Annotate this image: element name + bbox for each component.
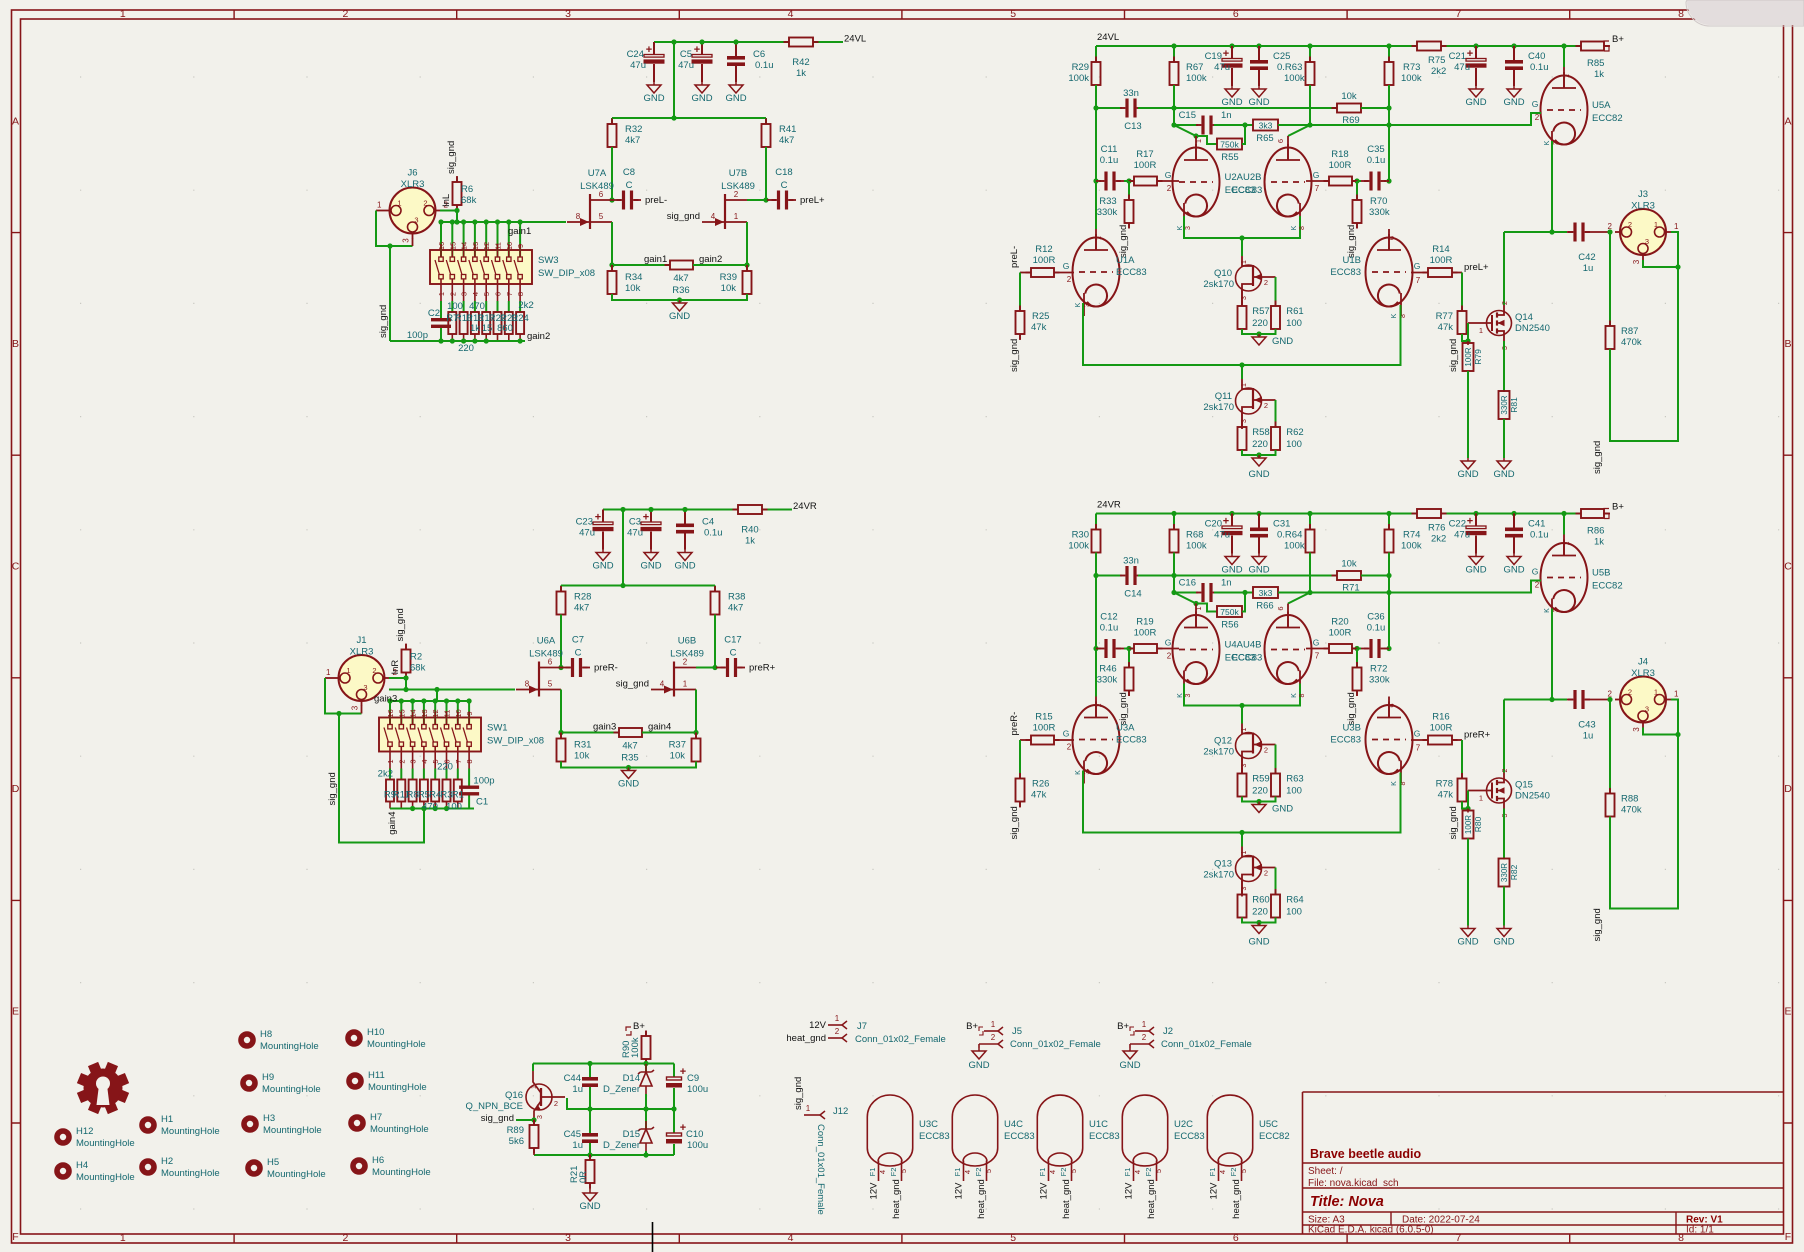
svg-text:12V: 12V — [869, 1182, 880, 1200]
svg-text:C6: C6 — [753, 49, 765, 60]
svg-text:+: + — [1467, 516, 1473, 528]
wire Q14 drain to output node — [1504, 231, 1552, 233]
svg-text:R58: R58 — [1252, 427, 1269, 438]
svg-text:K: K — [1291, 693, 1298, 698]
svg-text:G: G — [1532, 567, 1539, 577]
resistor R15 100R — [1026, 739, 1032, 741]
svg-text:2: 2 — [1067, 275, 1072, 284]
svg-text:4: 4 — [788, 1232, 794, 1244]
svg-text:2: 2 — [1502, 768, 1509, 772]
svg-text:7: 7 — [1416, 276, 1421, 285]
svg-text:C23: C23 — [576, 517, 593, 528]
svg-text:4: 4 — [1048, 1170, 1057, 1174]
svg-text:2: 2 — [342, 8, 348, 20]
svg-text:U3A: U3A — [1116, 723, 1135, 734]
svg-text:B+: B+ — [1612, 502, 1624, 513]
svg-text:68k: 68k — [410, 663, 426, 674]
svg-text:2: 2 — [1502, 301, 1509, 305]
svg-text:12: 12 — [431, 709, 440, 717]
capacitor C17 — [696, 667, 716, 669]
svg-text:24VR: 24VR — [1097, 500, 1121, 511]
svg-text:heat_gnd: heat_gnd — [891, 1179, 902, 1219]
svg-text:R42: R42 — [792, 57, 809, 68]
capacitor C42 1u — [1567, 231, 1573, 233]
svg-text:330k: 330k — [1369, 675, 1390, 686]
svg-text:8: 8 — [1299, 226, 1306, 230]
mounting hole H2 — [142, 1161, 154, 1173]
svg-text:R36: R36 — [672, 285, 689, 296]
svg-text:C: C — [781, 180, 788, 191]
svg-text:11: 11 — [443, 710, 452, 718]
ground under C4 — [684, 550, 686, 553]
svg-text:Brave beetle audio: Brave beetle audio — [1310, 1147, 1422, 1161]
wire to U4AU4B grid — [1157, 648, 1179, 650]
wire XLR pin1 to ground bus — [325, 677, 334, 679]
svg-text:220: 220 — [1252, 439, 1268, 450]
svg-text:GND: GND — [691, 93, 712, 104]
svg-text:8: 8 — [525, 680, 530, 689]
svg-text:47u: 47u — [678, 60, 694, 71]
svg-text:C5: C5 — [680, 49, 692, 60]
svg-text:H5: H5 — [267, 1157, 279, 1168]
svg-text:R30: R30 — [1072, 530, 1089, 541]
svg-text:preL-: preL- — [1009, 246, 1020, 268]
svg-text:100k: 100k — [1401, 541, 1422, 552]
svg-text:DN2540: DN2540 — [1515, 791, 1550, 802]
svg-text:U7A: U7A — [588, 168, 607, 179]
svg-text:860: 860 — [497, 323, 513, 334]
svg-text:3: 3 — [402, 238, 411, 243]
svg-text:5: 5 — [482, 292, 491, 296]
svg-text:3: 3 — [565, 8, 571, 20]
svg-text:gain2: gain2 — [699, 254, 722, 265]
svg-text:100k: 100k — [1284, 541, 1305, 552]
svg-text:1: 1 — [377, 201, 382, 210]
svg-text:2: 2 — [1608, 690, 1613, 699]
svg-text:GND: GND — [1457, 469, 1478, 480]
svg-text:3: 3 — [1645, 705, 1649, 714]
resistor R64 100 — [1275, 868, 1277, 895]
wire sig_gnd down — [389, 246, 391, 341]
svg-text:R74: R74 — [1403, 530, 1420, 541]
svg-text:preR+: preR+ — [1464, 730, 1491, 741]
junction sig_gnd — [336, 711, 341, 716]
svg-text:K: K — [1391, 313, 1398, 318]
svg-text:4: 4 — [788, 8, 794, 20]
svg-text:100k: 100k — [1186, 541, 1207, 552]
wire anode feedback line — [1095, 553, 1097, 697]
svg-text:GND: GND — [1493, 937, 1514, 948]
wire zener rail 3 — [534, 1154, 674, 1156]
resistor bank SW3 position 6 — [508, 301, 510, 312]
svg-text:3: 3 — [1632, 259, 1641, 264]
svg-text:100: 100 — [447, 301, 463, 312]
wire resistor bank bus — [390, 808, 474, 810]
svg-text:gain3: gain3 — [374, 694, 397, 705]
wire to U2B grid — [1306, 180, 1329, 182]
svg-text:H4: H4 — [76, 1160, 88, 1171]
svg-text:10k: 10k — [670, 751, 686, 762]
svg-text:47k: 47k — [1438, 790, 1454, 801]
svg-text:SW1: SW1 — [487, 723, 508, 734]
svg-text:47u: 47u — [1454, 62, 1470, 73]
svg-text:MountingHole: MountingHole — [367, 1039, 426, 1050]
transistor Q10 2sk170 — [1241, 238, 1243, 256]
svg-text:ECC83: ECC83 — [1330, 735, 1361, 746]
svg-text:100R: 100R — [1430, 255, 1453, 266]
switch SW3 body — [430, 250, 532, 284]
svg-text:U5C: U5C — [1259, 1119, 1278, 1130]
svg-text:GND: GND — [1493, 469, 1514, 480]
svg-text:1k: 1k — [1594, 537, 1604, 548]
svg-text:ECC83: ECC83 — [1174, 1131, 1205, 1142]
svg-text:Title: Nova: Title: Nova — [1310, 1194, 1384, 1210]
resistor R63 overlapped labels — [1309, 46, 1311, 62]
svg-text:12V: 12V — [1039, 1182, 1050, 1200]
switch SW3 unit 8 — [519, 222, 521, 257]
transistor Q12 2sk170 — [1241, 706, 1243, 724]
svg-text:File: nova.kicad_sch: File: nova.kicad_sch — [1308, 1178, 1399, 1189]
svg-text:MountingHole: MountingHole — [267, 1169, 326, 1180]
svg-text:U1A: U1A — [1116, 255, 1135, 266]
switch SW3 unit 7 — [508, 222, 510, 257]
resistor R66 3k3 boxed — [1253, 587, 1278, 598]
svg-text:1: 1 — [437, 292, 446, 296]
svg-text:MountingHole: MountingHole — [372, 1167, 431, 1178]
wire grid feed U5B — [1389, 581, 1541, 593]
svg-text:0.R63: 0.R63 — [1277, 62, 1302, 73]
resistor R62 100 — [1275, 400, 1277, 427]
svg-text:8: 8 — [1678, 8, 1684, 20]
svg-text:R18: R18 — [1331, 149, 1348, 160]
resistor bank SW3 position 1 — [451, 301, 453, 312]
mounting hole H1 — [142, 1119, 154, 1131]
svg-text:100: 100 — [1286, 318, 1302, 329]
svg-text:XLR3: XLR3 — [401, 179, 425, 190]
svg-text:7: 7 — [1455, 1232, 1461, 1244]
svg-text:sig_gnd: sig_gnd — [1346, 225, 1357, 258]
svg-text:1: 1 — [1674, 222, 1679, 231]
svg-text:Q_NPN_BCE: Q_NPN_BCE — [465, 1101, 523, 1112]
resistor bank SW1 position 1 — [389, 769, 391, 780]
ground under C22 — [1475, 554, 1477, 557]
svg-text:C9: C9 — [687, 1073, 699, 1084]
resistor R68 — [1173, 514, 1175, 530]
svg-text:2sk170: 2sk170 — [1203, 279, 1234, 290]
diode D14 zener — [645, 1064, 647, 1072]
svg-text:3: 3 — [1084, 303, 1091, 307]
svg-text:U2AU2B: U2AU2B — [1225, 172, 1262, 183]
ground under C31 — [1258, 554, 1260, 557]
svg-text:3: 3 — [409, 759, 418, 763]
wire zener rail 1 — [533, 1063, 674, 1065]
svg-text:1: 1 — [1241, 727, 1248, 731]
mounting hole H6 — [353, 1160, 365, 1172]
svg-text:J2: J2 — [1163, 1026, 1173, 1037]
svg-text:ECC82: ECC82 — [1592, 113, 1623, 124]
resistor R35 4k7 — [614, 732, 620, 734]
svg-text:heat_gnd: heat_gnd — [976, 1179, 987, 1219]
svg-text:47u: 47u — [1214, 530, 1230, 541]
svg-text:1: 1 — [1674, 690, 1679, 699]
wire cathode to output — [1552, 609, 1567, 700]
svg-text:SW_DIP_x08: SW_DIP_x08 — [538, 268, 595, 279]
svg-text:U2C: U2C — [1174, 1119, 1193, 1130]
svg-text:U5A: U5A — [1592, 100, 1611, 111]
svg-text:G: G — [1063, 261, 1070, 271]
svg-text:330k: 330k — [1097, 207, 1118, 218]
svg-text:K: K — [1291, 225, 1298, 230]
svg-text:2: 2 — [1142, 1033, 1147, 1042]
svg-text:F2: F2 — [974, 1168, 983, 1177]
svg-text:5: 5 — [548, 680, 553, 689]
svg-text:MountingHole: MountingHole — [262, 1084, 321, 1095]
svg-text:Q16: Q16 — [505, 1090, 523, 1101]
svg-text:47u: 47u — [630, 60, 646, 71]
svg-text:gain2: gain2 — [527, 331, 550, 342]
wire R80 to ground — [1467, 839, 1469, 926]
cursor crosshair line — [652, 1222, 654, 1252]
capacitor C9 100u — [673, 1064, 675, 1078]
resistor bank SW1 position 7 — [457, 769, 459, 780]
resistor R76 2k2 — [1412, 513, 1418, 515]
svg-text:U5B: U5B — [1592, 568, 1610, 579]
svg-text:1: 1 — [120, 8, 126, 20]
svg-text:R25: R25 — [1032, 311, 1049, 322]
svg-text:B: B — [1784, 338, 1791, 350]
resistor R59 220 — [1241, 758, 1243, 774]
wire cathode bus 2 — [1083, 771, 1401, 833]
svg-text:47u: 47u — [579, 528, 595, 539]
svg-text:ECC83: ECC83 — [1089, 1131, 1120, 1142]
svg-text:GND: GND — [1221, 565, 1242, 576]
svg-text:100R: 100R — [1134, 160, 1157, 171]
svg-text:100R: 100R — [1464, 347, 1473, 366]
capacitor C4 — [684, 510, 686, 524]
wire gain2 to U7B source — [693, 222, 747, 265]
svg-text:F2: F2 — [1144, 1168, 1153, 1177]
wire XLR pin2 to switch bus — [440, 211, 457, 223]
svg-text:C36: C36 — [1367, 612, 1384, 623]
svg-text:0.1u: 0.1u — [704, 528, 723, 539]
svg-text:R77: R77 — [1436, 311, 1453, 322]
svg-text:2: 2 — [448, 292, 457, 296]
mounting hole H9 — [243, 1077, 255, 1089]
ground under C23 — [602, 550, 604, 553]
svg-text:D14: D14 — [623, 1073, 640, 1084]
wire CCS bottom — [1242, 797, 1276, 802]
svg-text:R57: R57 — [1252, 306, 1269, 317]
junction grid node right — [1354, 178, 1359, 183]
svg-text:C: C — [730, 648, 737, 659]
wire R63 drop — [1309, 85, 1311, 125]
svg-text:100k: 100k — [1284, 73, 1305, 84]
wire diagonals to U4AU4B anodes — [1174, 593, 1196, 604]
svg-text:R67: R67 — [1186, 62, 1203, 73]
svg-text:ECC82: ECC82 — [1259, 1131, 1290, 1142]
svg-text:100R: 100R — [1430, 723, 1453, 734]
junction grid node — [1126, 646, 1131, 651]
svg-text:LSK489: LSK489 — [529, 649, 563, 660]
net label sig_gnd below R33 — [1128, 223, 1130, 228]
connector J3 XLR3 — [1620, 209, 1666, 255]
wire to U2AU2B grid — [1157, 180, 1179, 182]
svg-text:2: 2 — [1535, 581, 1540, 590]
wire rail to divider row — [673, 42, 675, 118]
resistor R21 0R — [589, 1155, 591, 1160]
svg-text:GND: GND — [643, 93, 664, 104]
resistor R37 — [695, 733, 697, 739]
svg-text:D15: D15 — [623, 1129, 640, 1140]
svg-text:G: G — [1532, 99, 1539, 109]
capacitor C36 — [1384, 648, 1389, 650]
capacitor C31 — [1258, 514, 1260, 528]
svg-text:R85: R85 — [1587, 58, 1604, 69]
svg-text:10k: 10k — [1341, 91, 1357, 102]
svg-text:MountingHole: MountingHole — [260, 1041, 319, 1052]
svg-text:E: E — [12, 1006, 19, 1018]
svg-text:470: 470 — [469, 301, 485, 312]
svg-text:SW3: SW3 — [538, 255, 559, 266]
resistor R17 100R — [1124, 180, 1134, 182]
svg-text:220: 220 — [437, 762, 453, 773]
svg-text:K: K — [1177, 225, 1184, 230]
svg-text:R19: R19 — [1136, 617, 1153, 628]
svg-text:R37: R37 — [669, 740, 686, 751]
ground under Q15 — [1503, 926, 1505, 929]
resistor R29 — [1095, 46, 1097, 62]
svg-text:GND: GND — [669, 311, 690, 322]
svg-text:9: 9 — [516, 244, 525, 248]
svg-text:10k: 10k — [625, 283, 641, 294]
svg-text:sig_gnd: sig_gnd — [616, 679, 649, 690]
wire CCS bottom — [1242, 329, 1276, 334]
svg-text:B+: B+ — [966, 1021, 978, 1032]
junction grid node right — [1354, 646, 1359, 651]
wire to U4B grid — [1306, 648, 1329, 650]
net label sig_gnd below R46 — [1128, 691, 1130, 696]
svg-text:16: 16 — [386, 709, 395, 717]
mounting hole H4 — [57, 1165, 69, 1177]
svg-text:C: C — [1784, 561, 1792, 573]
svg-text:R16: R16 — [1432, 712, 1449, 723]
resistor R77 47k — [1461, 273, 1463, 312]
svg-text:preR-: preR- — [594, 663, 618, 674]
wire cathode to output — [1552, 141, 1567, 232]
capacitor C24 — [653, 42, 655, 55]
ground tail — [679, 300, 681, 303]
svg-text:H11: H11 — [368, 1070, 385, 1081]
svg-text:2: 2 — [1608, 222, 1613, 231]
svg-text:1: 1 — [386, 759, 395, 763]
svg-text:R81: R81 — [1509, 397, 1519, 413]
resistor R36 4k7 — [665, 264, 671, 266]
svg-text:ECC83: ECC83 — [1004, 1131, 1035, 1142]
svg-text:33n: 33n — [1123, 556, 1139, 567]
svg-text:220: 220 — [1252, 786, 1268, 797]
wire bank bus to sig_gnd — [339, 714, 424, 843]
capacitor C19 — [1231, 46, 1233, 59]
svg-text:0.1u: 0.1u — [1367, 623, 1386, 634]
resistor R72 330k — [1356, 649, 1358, 668]
resistor R78 47k — [1461, 740, 1463, 779]
triode U5B ECC82 — [1541, 543, 1588, 612]
resistor R26 47k — [1019, 740, 1021, 779]
svg-text:R46: R46 — [1099, 664, 1116, 675]
svg-text:sig_gnd: sig_gnd — [1009, 806, 1020, 839]
svg-text:R33: R33 — [1099, 196, 1116, 207]
svg-text:2: 2 — [991, 1033, 996, 1042]
resistor R30 — [1095, 514, 1097, 530]
capacitor C15 1n — [1174, 124, 1198, 126]
svg-text:+: + — [1467, 48, 1473, 60]
net label sig_gnd below R25 — [1019, 334, 1021, 340]
resistor R64 overlapped labels — [1309, 514, 1311, 530]
svg-text:R63: R63 — [1286, 774, 1303, 785]
wire R63 drop — [1309, 553, 1311, 593]
svg-text:R60: R60 — [1252, 895, 1269, 906]
svg-text:R12: R12 — [1035, 244, 1052, 255]
wire output ground loop — [1610, 232, 1678, 441]
svg-text:R88: R88 — [1621, 794, 1638, 805]
svg-text:3: 3 — [414, 216, 418, 225]
resistor bank SW1 position 6 — [446, 769, 448, 780]
svg-text:C44: C44 — [564, 1073, 581, 1084]
capacitor C1 100p — [468, 769, 470, 786]
capacitor C2 100p — [440, 301, 442, 318]
svg-text:G: G — [1165, 170, 1172, 180]
svg-text:100k: 100k — [630, 1037, 641, 1058]
ground under C5 — [701, 82, 703, 85]
wire gain2 to U6B source — [642, 690, 696, 733]
wire XLR pin1 to ground bus — [376, 210, 385, 212]
wire 24V tube rail — [1096, 513, 1417, 515]
svg-text:C: C — [575, 648, 582, 659]
svg-text:10k: 10k — [721, 283, 737, 294]
svg-text:2: 2 — [342, 1232, 348, 1244]
wire R32 to coupling caps — [611, 147, 613, 200]
svg-text:+: + — [1223, 48, 1229, 60]
svg-text:R39: R39 — [720, 272, 737, 283]
wire R79 to ground — [1467, 371, 1469, 458]
svg-text:R38: R38 — [728, 592, 745, 603]
resistor bank SW3 position 4 — [485, 301, 487, 312]
svg-text:47k: 47k — [1031, 790, 1047, 801]
svg-text:R64: R64 — [1286, 895, 1303, 906]
svg-text:A: A — [1784, 115, 1791, 127]
resistor R57 220 — [1241, 290, 1243, 306]
svg-text:C40: C40 — [1528, 51, 1545, 62]
svg-text:preR+: preR+ — [749, 663, 776, 674]
svg-text:3: 3 — [1553, 608, 1560, 612]
svg-text:+: + — [694, 44, 700, 56]
svg-text:R24: R24 — [511, 313, 528, 324]
svg-text:C16: C16 — [1179, 578, 1196, 589]
svg-text:2k2: 2k2 — [1431, 534, 1446, 545]
svg-text:8: 8 — [1678, 1232, 1684, 1244]
svg-text:1: 1 — [1562, 541, 1571, 545]
svg-text:F1: F1 — [868, 1168, 877, 1177]
svg-text:1k: 1k — [470, 323, 480, 334]
svg-text:C4: C4 — [702, 517, 714, 528]
ground under C40 — [1513, 86, 1515, 89]
svg-text:K: K — [1391, 781, 1398, 786]
jfet U6B LSK489 — [673, 662, 675, 697]
svg-text:1: 1 — [1479, 326, 1483, 335]
svg-text:1: 1 — [806, 1104, 811, 1113]
svg-text:2: 2 — [423, 199, 427, 208]
svg-text:2: 2 — [1264, 869, 1268, 878]
